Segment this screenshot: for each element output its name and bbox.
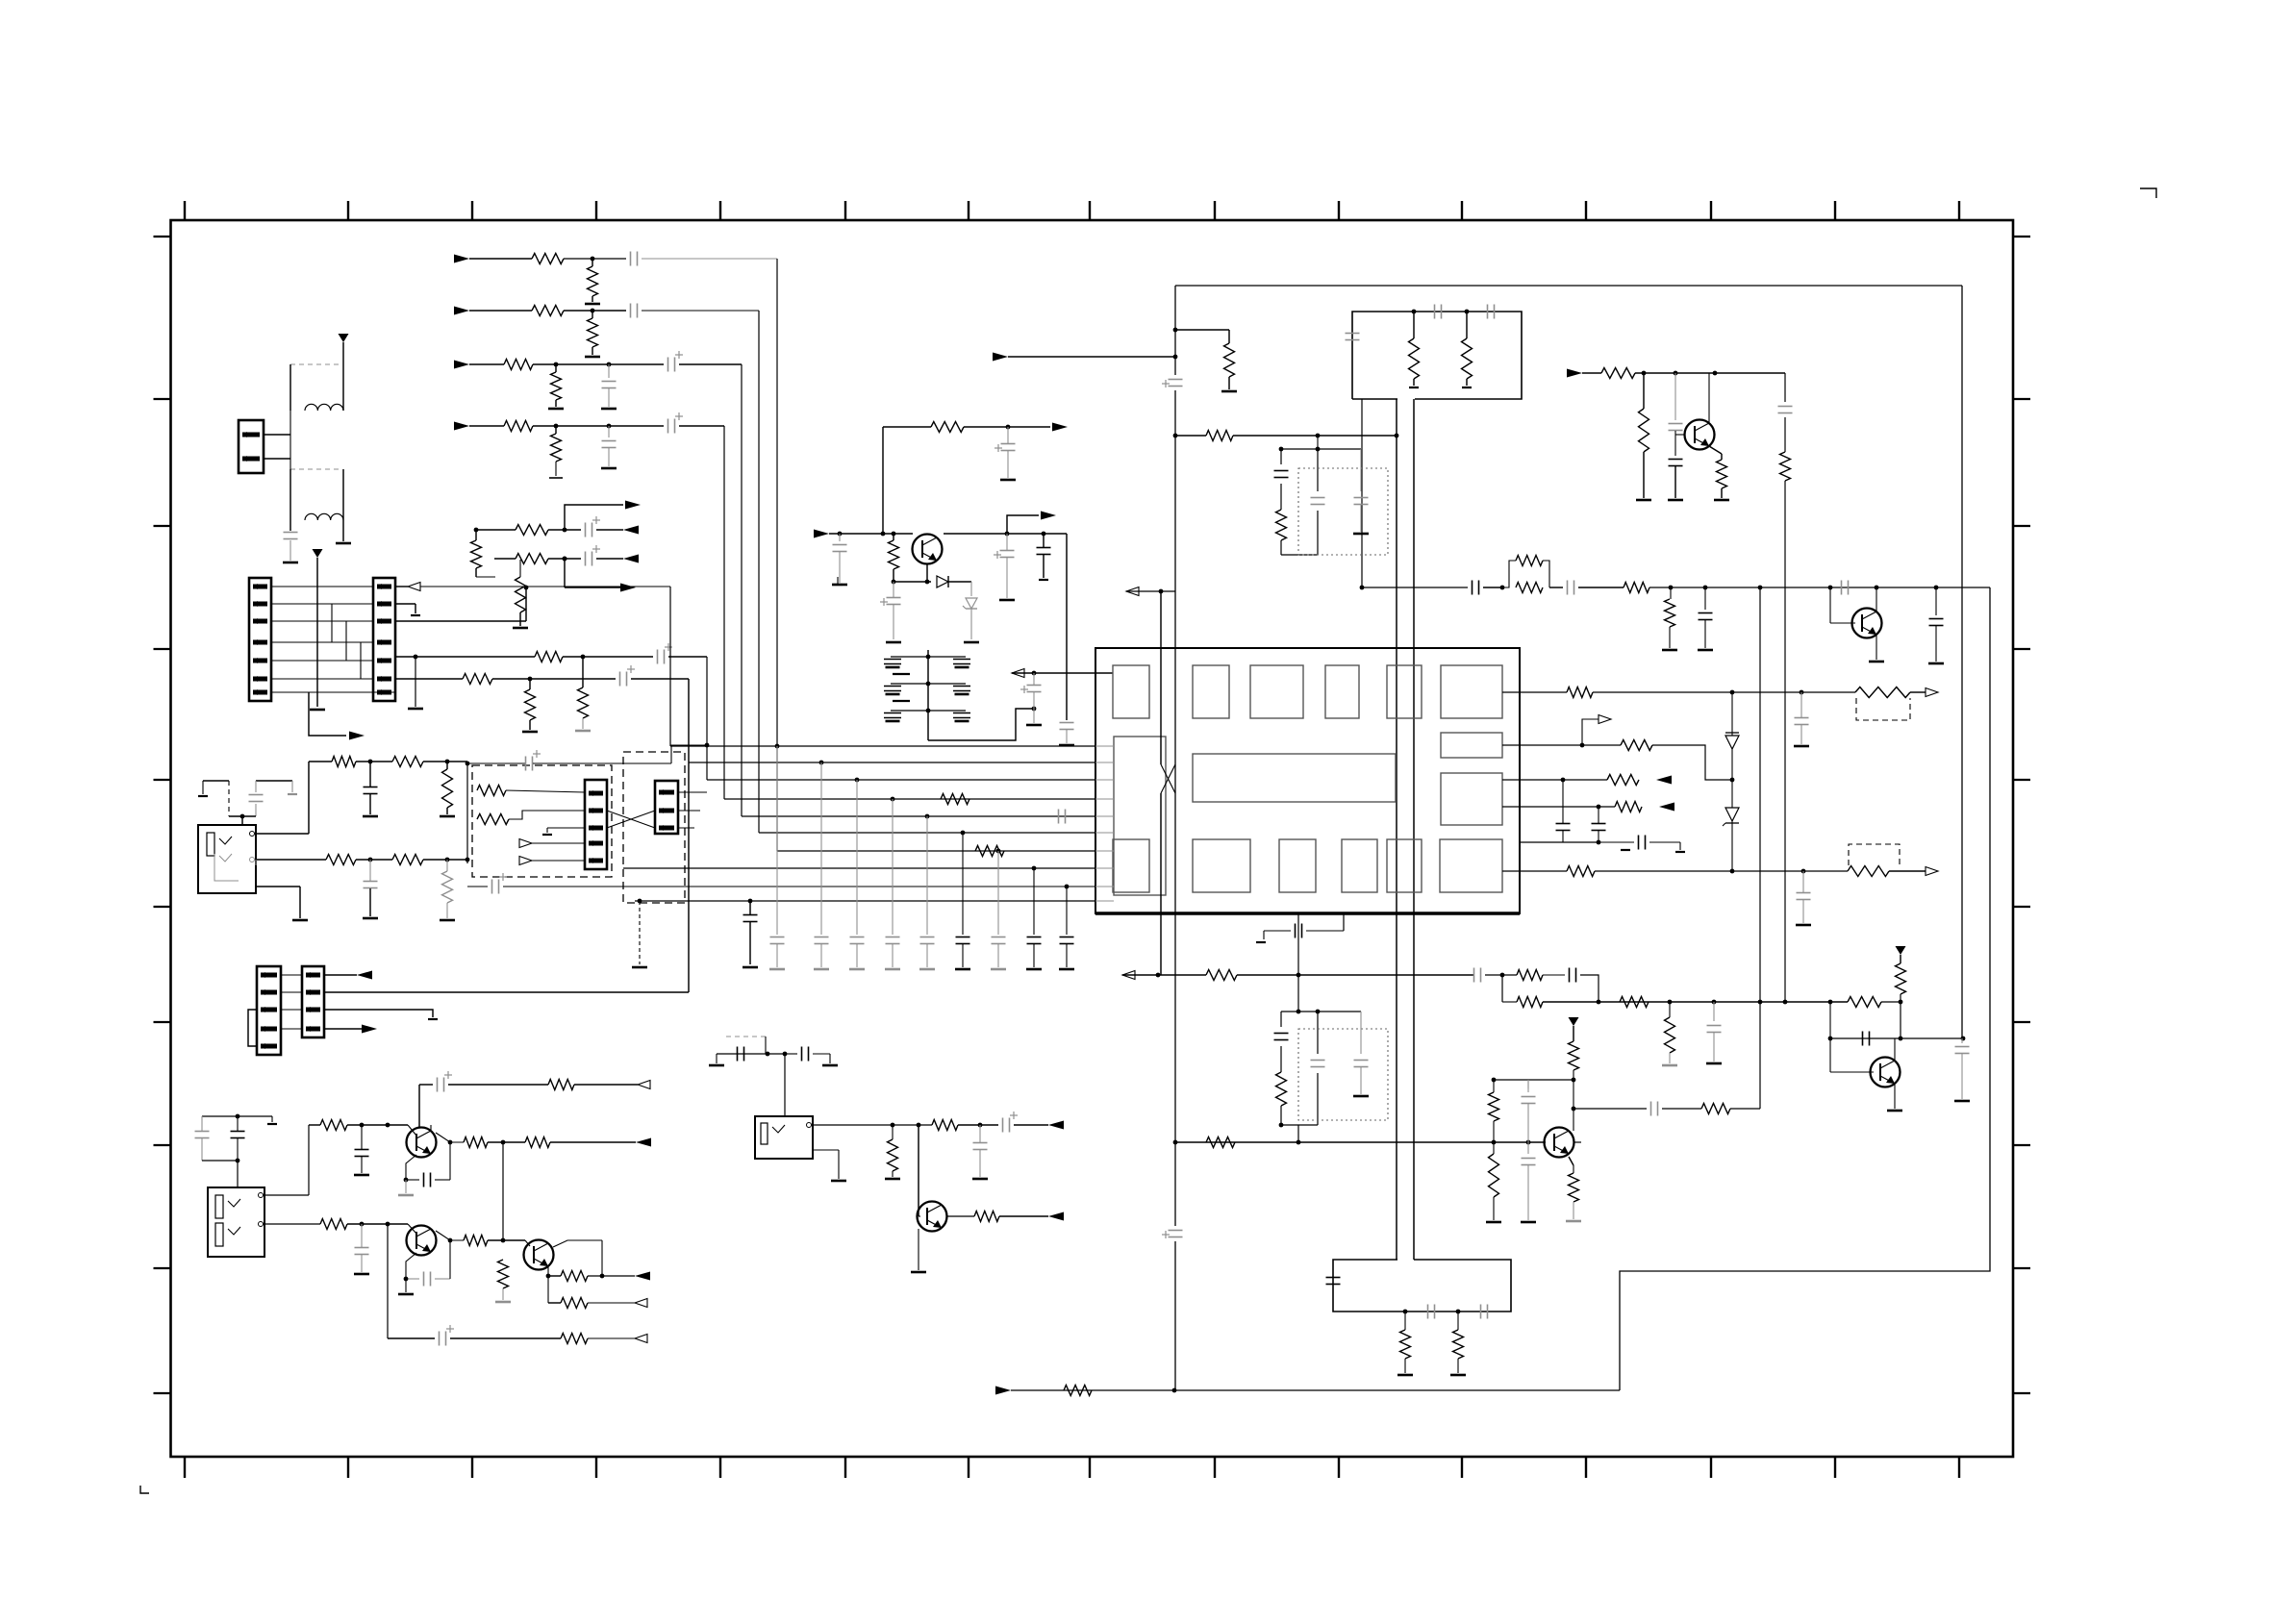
wire [564, 559, 566, 587]
capacitor C65 [1707, 1026, 1722, 1033]
resistor R50 [1276, 1072, 1287, 1106]
capacitor C56 [1639, 836, 1646, 850]
wire [229, 815, 256, 817]
wire [1543, 974, 1565, 976]
resistor R56 [1206, 1137, 1235, 1148]
ground [354, 1273, 369, 1276]
dotted box XF2 [1298, 1029, 1388, 1120]
wire [1595, 870, 1848, 872]
wire row 1153 [1573, 1108, 1647, 1110]
wire [529, 679, 531, 730]
open arrow [1926, 688, 1938, 697]
wire [492, 678, 616, 680]
open arrow [1599, 715, 1611, 724]
junction [1403, 1310, 1461, 1314]
resistor R43 [1621, 740, 1652, 751]
wire [944, 533, 1067, 535]
capacitor C72 [1428, 1305, 1435, 1319]
signal arrow IN7 [1567, 369, 1582, 378]
wire [1175, 435, 1206, 437]
wire crossover [1161, 764, 1175, 793]
wire [1502, 744, 1621, 746]
capacitor C74 [738, 1047, 744, 1062]
resistor R27 [889, 540, 899, 569]
resistor R55 [1896, 963, 1906, 994]
wire [519, 560, 521, 626]
junction [528, 677, 533, 682]
signal arrow OUT-C [623, 555, 639, 563]
wire [1006, 534, 1008, 598]
wire riser [308, 762, 310, 834]
wire [642, 258, 777, 260]
junction [1597, 840, 1601, 845]
wire [1543, 561, 1549, 587]
block box top [1352, 312, 1522, 399]
wire vertical bus A [1174, 286, 1176, 1390]
wire [1961, 1054, 1963, 1099]
resistor R13 [535, 652, 563, 662]
dashed box DB1 [472, 765, 612, 877]
transistor Q7 [918, 1202, 947, 1232]
wire [1493, 1080, 1495, 1092]
signal arrow IN8 [995, 1387, 1011, 1395]
wire [347, 1223, 408, 1225]
capacitor C55 [1592, 824, 1606, 831]
junction [414, 655, 418, 660]
wire [1457, 1312, 1459, 1373]
wire [1669, 1002, 1671, 1017]
wire row 1080 [1830, 1037, 1963, 1039]
junction [404, 1238, 453, 1282]
wire [716, 1054, 718, 1063]
junction [1492, 1140, 1531, 1145]
ground [363, 815, 378, 818]
wire [1520, 841, 1599, 843]
junction [1005, 532, 1010, 537]
connector CN101 [239, 420, 264, 473]
wire [361, 1125, 363, 1173]
capacitor C60 [1354, 498, 1369, 505]
junction [705, 743, 710, 748]
wire [1582, 372, 1601, 374]
junction [1800, 690, 1804, 695]
resistor R18 [392, 757, 423, 767]
wire [1066, 730, 1068, 743]
wire [502, 1240, 504, 1300]
power arrow V1 [339, 334, 349, 342]
IC U1 bottom edge [1095, 912, 1520, 914]
block box bottom [1333, 1260, 1511, 1312]
wire [918, 1229, 919, 1270]
ground [310, 709, 325, 712]
wire [1281, 1124, 1318, 1126]
wire [502, 1142, 504, 1240]
junction [1668, 1000, 1673, 1005]
border tick marks left/right [154, 237, 2031, 1393]
wire [469, 310, 532, 312]
ground [198, 795, 208, 797]
ground [1675, 851, 1685, 853]
wire [892, 1125, 894, 1177]
capacitor C27 [743, 915, 758, 922]
wire [342, 469, 344, 520]
IC block top-right [1441, 665, 1502, 718]
signal arrow OUT-F [1052, 423, 1068, 432]
corner mark bottom-left [140, 1486, 149, 1493]
ground [972, 1178, 988, 1181]
capacitor C79 [231, 1132, 245, 1138]
wire [256, 780, 292, 782]
junction [563, 557, 567, 562]
wire [1599, 841, 1634, 843]
wire [290, 520, 291, 531]
capacitor C71 [1326, 1278, 1341, 1285]
wire [1573, 1026, 1574, 1041]
wire row 1188 [1175, 1141, 1546, 1143]
ground [440, 919, 455, 922]
dashed jumper [1856, 698, 1910, 720]
signal arrow OUT-M [635, 1272, 650, 1281]
wire [406, 1240, 450, 1279]
wire [369, 860, 371, 916]
capacitor C16 polarized [492, 873, 508, 894]
ground [585, 356, 600, 359]
resistor R62 [1400, 1330, 1411, 1359]
capacitor C46 [1778, 407, 1793, 413]
capacitor C38 [1037, 548, 1051, 555]
wire [291, 781, 293, 792]
wire [237, 1116, 239, 1161]
resistor R3 [532, 306, 564, 316]
wire [342, 520, 344, 541]
wire [1527, 1080, 1529, 1088]
diode D3 [1725, 733, 1739, 749]
signal arrow OUT-E [349, 732, 365, 740]
resistor R48 [1064, 1386, 1092, 1396]
dashed jumper [1849, 844, 1900, 865]
ground [428, 1018, 438, 1020]
wire [308, 1125, 310, 1195]
ground [549, 477, 563, 479]
ground [292, 919, 308, 922]
ground [911, 1271, 926, 1274]
resistor R17 [332, 757, 356, 767]
ground [1662, 649, 1677, 652]
wire [1578, 587, 1624, 588]
junction [607, 362, 612, 367]
junction [1500, 586, 1505, 590]
transistor QB [407, 1226, 437, 1256]
junction [445, 858, 450, 862]
ground [1026, 724, 1042, 727]
junction [1042, 532, 1046, 537]
wire [565, 505, 623, 530]
wire [1709, 446, 1722, 460]
resistor R61 [1701, 1104, 1730, 1114]
wires CN102-CN103 [271, 587, 373, 692]
wire [324, 1010, 433, 1017]
resistor R33 [1601, 368, 1635, 379]
signal arrow IN4 [454, 422, 469, 431]
junction [1828, 1000, 1833, 1005]
wire [946, 1215, 974, 1217]
capacitor C42 [1435, 305, 1442, 319]
capacitor C3 [631, 304, 638, 318]
junction [581, 655, 586, 660]
junction [1412, 310, 1470, 314]
connector CN104 [585, 780, 607, 869]
junction [1875, 586, 1879, 590]
capacitor group C28-C33 [884, 650, 970, 740]
wire [608, 426, 610, 437]
ground [411, 614, 420, 616]
capacitor C84 polarized [440, 1325, 455, 1346]
wire [309, 1124, 320, 1126]
IC block top2 [1193, 665, 1229, 718]
ground [1869, 661, 1884, 663]
junction [1360, 586, 1365, 590]
wire [1317, 449, 1319, 555]
wire [883, 426, 931, 428]
capacitor C49 [1699, 613, 1713, 620]
wire vertical right B [1759, 587, 1761, 1109]
wire [1573, 1141, 1581, 1143]
wire [324, 1028, 362, 1030]
junction [1500, 973, 1505, 978]
capacitor C52 [1296, 924, 1302, 938]
capacitor C36 polarized [994, 444, 1016, 453]
junction [1669, 586, 1674, 590]
wire [446, 762, 448, 814]
wire [509, 811, 585, 819]
capacitor C11 polarized [620, 665, 636, 687]
ground [743, 966, 758, 969]
wire [1306, 930, 1344, 932]
wire [423, 761, 467, 762]
open arrow [635, 1299, 647, 1308]
wire [749, 901, 751, 964]
junction [607, 424, 612, 429]
wire [608, 388, 610, 407]
capacitor C41 [1346, 334, 1360, 340]
wire [970, 609, 972, 639]
wire [1280, 1012, 1282, 1125]
wire [839, 534, 841, 541]
wire bus row 2 [689, 762, 1095, 763]
ground [542, 834, 552, 836]
wire [1502, 1001, 1517, 1003]
wire [387, 1224, 389, 1338]
resistor R53 [1665, 1017, 1675, 1053]
wire bus row 1 [670, 745, 1095, 747]
corner mark top-right [2140, 188, 2156, 198]
wire [415, 657, 416, 707]
wire [1713, 1033, 1715, 1062]
connector CN105 [655, 781, 678, 834]
wire vertical bus B [1396, 399, 1397, 1260]
junction [1934, 586, 1939, 590]
capacitor C85 polarized [1020, 686, 1042, 694]
wire [533, 363, 664, 365]
wire [1704, 620, 1706, 648]
wire [668, 656, 707, 658]
transformer T1 secondary dashed [290, 468, 339, 470]
resistor R34 [1639, 409, 1649, 452]
open arrow [408, 583, 420, 591]
wire [356, 761, 392, 762]
wire bus drop 4 [723, 426, 725, 799]
wire [1635, 372, 1785, 374]
wire vertical right D [1620, 587, 1990, 1390]
junction [1597, 1000, 1601, 1005]
resistor R44 [1607, 775, 1639, 786]
wire [1643, 452, 1645, 498]
wire bus row 3 [707, 779, 1095, 781]
wire [555, 426, 557, 476]
wire [1014, 1124, 1048, 1126]
wire [1675, 434, 1685, 436]
capacitor C50 [1842, 581, 1849, 595]
wire [1281, 554, 1318, 556]
resistor R7 [504, 421, 533, 432]
wire [548, 529, 581, 531]
IC block top5 [1387, 665, 1422, 718]
open arrow [519, 839, 532, 848]
open arrow [1122, 971, 1135, 980]
wire [1876, 635, 1877, 660]
wire [1800, 692, 1802, 744]
wire [588, 1337, 635, 1339]
ground [283, 562, 298, 564]
wire [405, 1279, 407, 1292]
wire [1501, 975, 1503, 1002]
wire diode chain [1731, 692, 1733, 871]
wire [1360, 505, 1362, 532]
junction [978, 1123, 983, 1128]
wire riser [882, 427, 884, 534]
capacitor C1 [284, 533, 298, 539]
open arrow [638, 1081, 650, 1089]
capacitor C53 [1795, 718, 1809, 725]
capacitor C80 [355, 1150, 369, 1157]
wire [785, 1054, 830, 1063]
capacitor C75 [802, 1047, 809, 1062]
resistor R10 [471, 540, 482, 568]
ground [1256, 941, 1266, 943]
resistor R2 [588, 266, 598, 296]
capacitor C63 [1354, 1061, 1369, 1067]
wire [1549, 587, 1563, 588]
resistor R57 [1489, 1092, 1499, 1121]
signal arrow OUT-N [357, 971, 372, 980]
resistor R39 [1624, 583, 1649, 593]
resistor R49 [1276, 510, 1287, 540]
wire vertical bus C [1413, 399, 1415, 1260]
wire [1280, 449, 1282, 555]
wire [1562, 780, 1564, 842]
capacitor C83 [424, 1272, 431, 1287]
ground [1698, 649, 1713, 652]
wire [1713, 1002, 1715, 1021]
ground [601, 467, 617, 470]
wire [469, 425, 504, 427]
wire [316, 558, 318, 707]
wire [1582, 719, 1599, 745]
junction [917, 1123, 921, 1128]
resistor R28 [931, 422, 964, 433]
ground [885, 1178, 900, 1181]
junction [1032, 671, 1037, 676]
capacitor C73 [1481, 1305, 1488, 1319]
IC block left tall [1114, 737, 1166, 895]
wire bus row 9 [503, 886, 1095, 887]
junction [1580, 743, 1585, 748]
wire [264, 1223, 320, 1225]
wire dashed [726, 1036, 766, 1037]
power arrow V3 [1896, 946, 1906, 955]
wire bus row 8 [623, 867, 1095, 869]
signal arrow IN1 [454, 255, 469, 263]
ground [1353, 533, 1369, 536]
IC block right small [1441, 733, 1502, 758]
wire [547, 1276, 549, 1303]
junction [501, 1140, 506, 1145]
wire [1175, 329, 1229, 331]
dotted box XF1 [1298, 468, 1388, 555]
signal arrow OUT-B [623, 526, 639, 535]
junction [554, 362, 559, 367]
capacitor C5 polarized [668, 351, 684, 372]
ground [822, 1064, 838, 1067]
wire [1362, 587, 1468, 588]
junction [1712, 1000, 1717, 1005]
wire [574, 1084, 638, 1086]
capacitor C76 polarized [1003, 1112, 1019, 1133]
junction [1173, 1140, 1178, 1145]
wire [309, 691, 395, 693]
junction [1172, 1388, 1177, 1393]
wire [256, 859, 326, 861]
wire [893, 582, 894, 639]
transistor Q6 [1545, 1128, 1574, 1158]
IC block bot5 [1387, 839, 1422, 892]
transistor Q2 [1852, 609, 1882, 638]
wire [419, 1084, 433, 1086]
wire bus drop 2 [758, 311, 760, 833]
resistor R21 [392, 855, 423, 865]
power arrow V2 [313, 549, 323, 558]
wire [671, 745, 707, 763]
wire [324, 991, 689, 993]
wire [958, 1124, 998, 1126]
jack J1 [198, 825, 256, 893]
wire collector QA [436, 1133, 464, 1142]
wire drop [1066, 534, 1068, 720]
ground [575, 730, 591, 733]
junction [501, 1238, 506, 1243]
signal arrow OUT-J [1048, 1121, 1064, 1130]
wire bus row 7 [777, 850, 1095, 852]
wire [237, 1161, 239, 1187]
diode D4 zener [1723, 808, 1739, 826]
wire [1122, 974, 1206, 976]
resistor R19 [442, 769, 453, 808]
capacitor C82 [355, 1248, 369, 1255]
wire [1317, 436, 1319, 449]
wire [1674, 431, 1676, 456]
junction [1279, 447, 1321, 452]
junction [1297, 973, 1301, 978]
